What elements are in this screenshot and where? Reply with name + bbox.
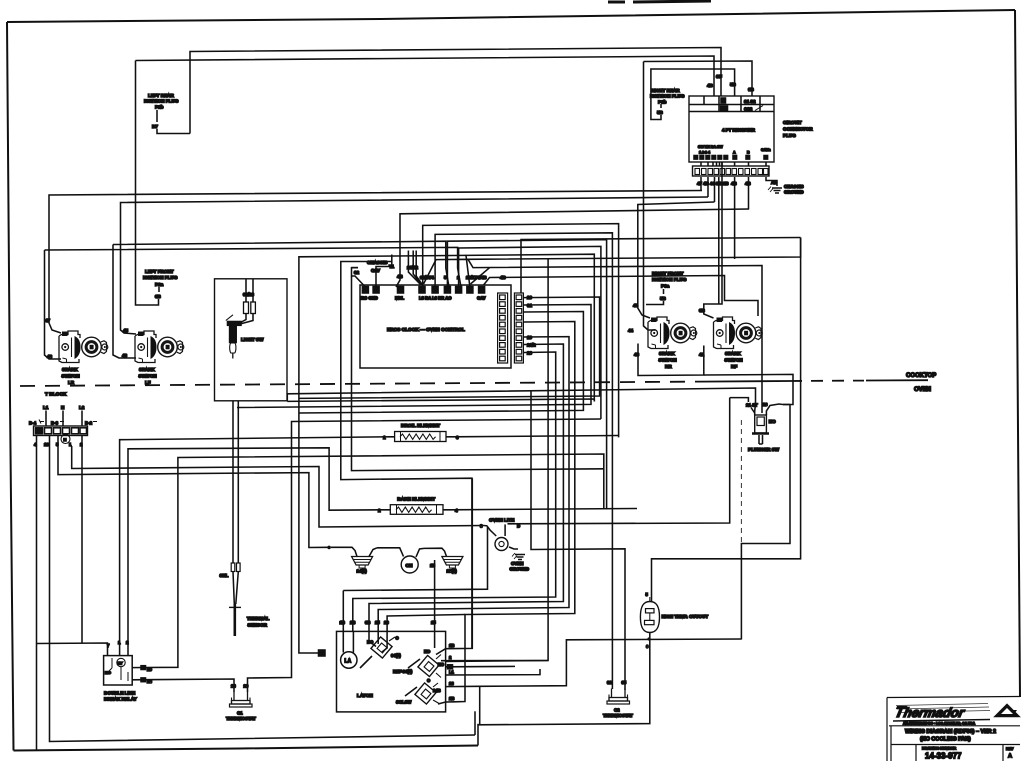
svg-text:BREAK RELAY: BREAK RELAY bbox=[104, 697, 137, 702]
svg-text:26: 26 bbox=[244, 684, 249, 689]
svg-text:BROIL ELEMENT: BROIL ELEMENT bbox=[401, 423, 440, 429]
svg-text:B7: B7 bbox=[152, 124, 158, 129]
wire: x340.8 rail from t2 region down to latch feed rail bbox=[341, 262, 472, 649]
svg-text:48: 48 bbox=[47, 354, 53, 359]
svg-text:S1 S2: S1 S2 bbox=[744, 99, 756, 104]
wire: latch right pin NO bbox=[441, 660, 548, 662]
svg-text:3B: 3B bbox=[699, 308, 706, 313]
svg-text:P2b: P2b bbox=[155, 105, 164, 110]
node junction dot bbox=[327, 546, 331, 550]
svg-text:20: 20 bbox=[147, 667, 152, 672]
wire: latch pin 1B riser bbox=[342, 591, 344, 632]
high temp cutout bbox=[640, 592, 708, 633]
svg-text:SOLSW: SOLSW bbox=[396, 700, 411, 705]
svg-text:4B: 4B bbox=[707, 83, 714, 88]
title block bbox=[887, 697, 1020, 761]
svg-text:SPARK: SPARK bbox=[62, 367, 78, 372]
svg-text:GROUND: GROUND bbox=[510, 567, 530, 572]
svg-text:P2a: P2a bbox=[155, 282, 164, 287]
oven lite lamp bbox=[480, 518, 529, 572]
latch relay DR bbox=[396, 683, 441, 705]
svg-text:34(2): 34(2) bbox=[391, 653, 401, 658]
svg-text:1 2 3 4: 1 2 3 4 bbox=[699, 151, 710, 155]
wire: register pins 166 strip drops bbox=[701, 177, 749, 304]
circuit connector plug label bbox=[783, 120, 813, 138]
broil element bbox=[383, 423, 459, 442]
svg-text:4B: 4B bbox=[731, 181, 737, 186]
svg-text:RIGHT REAR: RIGHT REAR bbox=[651, 88, 680, 93]
chassis ground bbox=[766, 177, 804, 195]
wire: latch right pin L1 bbox=[446, 669, 540, 675]
lamp socket right bbox=[442, 557, 463, 569]
svg-text:LEFT REAR: LEFT REAR bbox=[148, 93, 174, 98]
T BLOCK bbox=[29, 392, 97, 448]
wire bracket t7: ERCS terminal 7 riser to band bbox=[459, 246, 601, 419]
wire: cutout bottom drop to bottom bus bbox=[478, 633, 650, 725]
svg-text:PLUNGER SW: PLUNGER SW bbox=[748, 447, 780, 452]
svg-text:IGNITION PLUG: IGNITION PLUG bbox=[652, 277, 687, 282]
svg-text:44: 44 bbox=[628, 328, 634, 333]
wire: latch pin 387 riser bbox=[387, 615, 465, 632]
svg-text:B: B bbox=[747, 151, 750, 155]
wire: T-block L1 pin down to bottom bus bbox=[36, 436, 38, 750]
svg-text:CN: CN bbox=[406, 563, 413, 569]
wire: band line 401 lightbox bottom rail bbox=[287, 399, 594, 402]
wire: right socket 15 drop to latch bbox=[434, 560, 436, 631]
svg-text:SWITCH: SWITCH bbox=[659, 358, 678, 363]
svg-text:3B: 3B bbox=[365, 620, 370, 625]
wire: fold artifact dashed bbox=[740, 420, 742, 543]
wire D: register pin 4B to spark switch LF top bbox=[121, 197, 709, 334]
svg-text:AN AMERICAN CO • LOS ANGELES,: AN AMERICAN CO • LOS ANGELES, CA USA bbox=[903, 722, 976, 726]
wire C: register pin 47 to spark switch LR top bbox=[49, 191, 702, 334]
wire: inner bus riser to latch bottom corner bbox=[474, 711, 476, 735]
svg-text:5B: 5B bbox=[657, 110, 664, 115]
svg-text:D-4: D-4 bbox=[29, 421, 37, 426]
wire: latch right pin 1B riser bbox=[436, 478, 472, 654]
svg-text:PLUG: PLUG bbox=[783, 133, 796, 138]
svg-text:LA: LA bbox=[345, 659, 352, 665]
connector terminal strip bbox=[693, 162, 770, 176]
svg-text:N: N bbox=[64, 437, 67, 442]
wire: terminal 2 drop bbox=[376, 255, 392, 288]
wire B: x135 down-left branch to register pin 4B bbox=[136, 56, 715, 96]
svg-text:7: 7 bbox=[107, 643, 110, 648]
wire: x531 long vertical to C2 right leg bbox=[531, 391, 625, 690]
svg-text:THERMOSTAT: THERMOSTAT bbox=[603, 713, 633, 718]
wire: oven lite left feed from T-block N bbox=[72, 446, 484, 527]
spark switch LR bbox=[59, 331, 108, 363]
light switch box bbox=[215, 279, 288, 401]
svg-text:4B: 4B bbox=[397, 274, 403, 279]
wire bracket t6: ERCS terminal 6 riser to bake junction bbox=[447, 240, 606, 510]
wire: relay pin7 feed bbox=[37, 643, 108, 648]
svg-text:CAV: CAV bbox=[371, 268, 380, 273]
wire: T-block pin5 to socket rail bbox=[58, 436, 329, 548]
svg-text:WIRING DIAGRAM (RDF30) – VER: WIRING DIAGRAM (RDF30) – VER 2 bbox=[905, 729, 996, 735]
wire: broil left to DLB relay pin 1 bbox=[120, 437, 389, 649]
svg-text:1: 1 bbox=[118, 640, 121, 645]
svg-text:21 ST: 21 ST bbox=[746, 403, 758, 408]
svg-text:SNL: SNL bbox=[220, 573, 229, 578]
svg-text:IGNITION PLUG: IGNITION PLUG bbox=[144, 99, 179, 104]
svg-text:CONNECTOR: CONNECTOR bbox=[783, 127, 813, 132]
svg-text:DRAWING NUMBER: DRAWING NUMBER bbox=[922, 747, 957, 751]
wire: cooktop bus down to plunger right contact bbox=[704, 374, 793, 404]
svg-text:OVEN: OVEN bbox=[914, 387, 931, 393]
svg-text:SF: SF bbox=[716, 74, 722, 79]
svg-text:2: 2 bbox=[449, 655, 452, 660]
svg-text:6B: 6B bbox=[748, 87, 755, 92]
wire: RR bottom to RF bottom cooktop bus to plunger right bbox=[638, 344, 704, 376]
ERCS terminals bbox=[362, 287, 484, 294]
latch box bbox=[337, 631, 446, 712]
svg-text:SPARK: SPARK bbox=[725, 351, 741, 356]
wire F: hop bus terminal 4 to plunger rail bbox=[424, 259, 763, 413]
svg-text:C: C bbox=[427, 678, 430, 683]
svg-text:D-3: D-3 bbox=[51, 421, 59, 426]
svg-text:L1: L1 bbox=[43, 405, 49, 410]
svg-text:RR: RR bbox=[665, 364, 672, 369]
svg-text:31: 31 bbox=[527, 303, 532, 308]
wire: left front ignition plug drop bbox=[136, 61, 159, 306]
svg-text:REF 34(2): REF 34(2) bbox=[393, 669, 413, 674]
svg-text:LEFT FRONT: LEFT FRONT bbox=[145, 269, 174, 274]
wire: x643 feed to spark RR left bbox=[644, 62, 656, 331]
wire: spark rail to ERCS terminal 7 bbox=[45, 247, 462, 287]
svg-text:P3b: P3b bbox=[658, 100, 667, 105]
svg-text:14-33-977: 14-33-977 bbox=[925, 752, 962, 761]
wire: T-block L2 pin down bbox=[81, 436, 83, 644]
svg-text:RIGHT FRONT: RIGHT FRONT bbox=[652, 271, 684, 276]
thermal sensor bbox=[220, 563, 270, 636]
wire: step up to cutout bus bbox=[477, 724, 479, 746]
svg-text:CAV: CAV bbox=[477, 296, 486, 301]
svg-text:ERCS CLOCK — OVEN CONTROL: ERCS CLOCK — OVEN CONTROL bbox=[387, 327, 465, 333]
thermal sensor capillary wires bbox=[233, 401, 238, 563]
wire: relay right pin 20 riser rail bbox=[144, 454, 604, 668]
svg-text:10: 10 bbox=[527, 335, 532, 340]
svg-text:4 PT REGISTER: 4 PT REGISTER bbox=[722, 128, 756, 133]
svg-text:RO GND: RO GND bbox=[361, 296, 378, 301]
svg-text:NO: NO bbox=[438, 662, 445, 667]
svg-text:L2: L2 bbox=[79, 405, 85, 410]
wire: T-block pin2 down to inner bus bbox=[50, 436, 476, 742]
wire: xLA rail: terminal 8 top rail to latch LA circle bbox=[299, 255, 466, 653]
wire F2: y259 to long right vertical bbox=[468, 238, 801, 260]
svg-text:BAKE ELEMENT: BAKE ELEMENT bbox=[397, 497, 435, 503]
wire: connector pin 352 to latch pin 2B rail bbox=[353, 352, 556, 631]
wire: connector pin 337 to latch pin 378 bbox=[378, 337, 569, 632]
svg-text:A: A bbox=[733, 151, 736, 155]
wire: bus riser to latch 23 rail bbox=[479, 686, 481, 724]
svg-text:A: A bbox=[1008, 754, 1012, 760]
left front ignition plug P2a bbox=[143, 269, 178, 299]
wire: band line 392 light box to plunger bbox=[287, 388, 755, 415]
wire A: left rear plug to register pin SF bbox=[190, 48, 721, 134]
right rear ignition plug P3b bbox=[650, 69, 735, 120]
svg-text:32: 32 bbox=[607, 680, 612, 685]
wire: relay lower pin to C1 thermostat bbox=[145, 679, 234, 692]
svg-text:NO: NO bbox=[105, 670, 111, 675]
spark switch LF bbox=[135, 331, 184, 363]
svg-text:6: 6 bbox=[646, 644, 649, 649]
svg-text:20/1T4/4B: 20/1T4/4B bbox=[466, 275, 487, 280]
wire: terminal 4 fan feeders bbox=[408, 251, 422, 285]
Thermador logo bbox=[893, 704, 990, 726]
wire: band line 397.8 bbox=[299, 297, 600, 398]
svg-text:C2: C2 bbox=[614, 708, 620, 713]
svg-text:C1: C1 bbox=[237, 711, 243, 716]
node B terminal blob bbox=[319, 650, 326, 656]
svg-text:28: 28 bbox=[231, 684, 236, 689]
svg-text:MDL: MDL bbox=[395, 296, 405, 301]
svg-text:16(2): 16(2) bbox=[447, 569, 458, 574]
svg-text:N: N bbox=[61, 405, 65, 410]
svg-text:T1: T1 bbox=[389, 264, 395, 269]
C2 thermostat bbox=[603, 680, 633, 718]
svg-text:23: 23 bbox=[449, 681, 454, 686]
plunger switch bbox=[730, 398, 783, 452]
svg-text:24B: 24B bbox=[433, 688, 441, 693]
svg-text:SENSOR: SENSOR bbox=[248, 623, 268, 628]
wire: connector top to right vertical top bbox=[521, 238, 801, 294]
svg-text:45: 45 bbox=[633, 303, 639, 308]
lamp socket left bbox=[352, 557, 373, 569]
wire: terminal 8 diagonal bbox=[471, 268, 490, 284]
svg-text:LIGHT SW: LIGHT SW bbox=[241, 337, 264, 342]
svg-text:THERMOSTAT: THERMOSTAT bbox=[226, 716, 256, 721]
svg-text:BO: BO bbox=[367, 640, 374, 645]
svg-text:C: C bbox=[396, 636, 399, 641]
wire: x548 vertical to latch NO pin bbox=[446, 259, 548, 662]
svg-text:5: 5 bbox=[646, 592, 649, 597]
svg-text:L3 BA L3 BR AO: L3 BA L3 BR AO bbox=[419, 296, 452, 301]
4 PT register box bbox=[689, 96, 774, 162]
wire: bake right to rail bbox=[450, 509, 637, 510]
svg-text:OVEN: OVEN bbox=[511, 561, 523, 566]
wire: RF top-left pin from register pin 2B bbox=[704, 162, 722, 318]
logo triangle bbox=[995, 705, 1019, 717]
oven connector dual column bbox=[498, 293, 524, 363]
wire: latch right pin 23 to riser bbox=[446, 639, 742, 687]
double line break relay bbox=[104, 640, 153, 702]
svg-text:14(1): 14(1) bbox=[357, 569, 368, 574]
wire: bake left to DLB relay pin 2 bbox=[128, 448, 384, 649]
wire: branch to oven lite riser bbox=[343, 527, 487, 591]
svg-text:29: 29 bbox=[527, 295, 532, 300]
wire: x800 long vertical to cutout bbox=[652, 238, 801, 602]
left rear ignition plug P2b bbox=[144, 93, 190, 134]
svg-text:CS2: CS2 bbox=[744, 107, 753, 112]
svg-text:THERMAL: THERMAL bbox=[247, 616, 270, 621]
svg-text:IGNITION PLUG: IGNITION PLUG bbox=[143, 275, 178, 280]
bake element bbox=[378, 497, 458, 515]
svg-text:HIGH TEMP. CUTOUT: HIGH TEMP. CUTOUT bbox=[662, 614, 709, 619]
svg-text:45: 45 bbox=[123, 328, 129, 333]
svg-text:21/2: 21/2 bbox=[527, 343, 536, 348]
svg-text:LATCH: LATCH bbox=[357, 693, 373, 699]
svg-text:LR: LR bbox=[68, 380, 75, 385]
wire: latch right pin B blob bbox=[446, 665, 515, 667]
svg-text:P3a: P3a bbox=[661, 284, 670, 289]
wire: x351.5 rail down to x471.9 riser bbox=[352, 268, 359, 391]
svg-text:DOUBLE LINE: DOUBLE LINE bbox=[104, 691, 135, 696]
svg-text:SWITCH: SWITCH bbox=[139, 374, 158, 379]
svg-text:33/3T4: 33/3T4 bbox=[420, 275, 434, 280]
svg-text:CHASSIS: CHASSIS bbox=[784, 184, 804, 189]
svg-text:CIRCUIT: CIRCUIT bbox=[783, 120, 802, 125]
svg-text:(NO COOLING FAN): (NO COOLING FAN) bbox=[920, 737, 971, 743]
wire: socket rail segments bbox=[331, 547, 357, 556]
svg-text:NC: NC bbox=[424, 649, 430, 654]
wire: connector pin 344 to latch top right bbox=[369, 344, 563, 631]
wire: band line 406.8 bbox=[237, 305, 591, 408]
wire: plunger right to latch 23 riser bbox=[741, 405, 790, 640]
svg-text:1B: 1B bbox=[449, 643, 454, 648]
wire: x752 feed bbox=[644, 61, 753, 96]
latch relay RLY bbox=[408, 649, 445, 683]
svg-text:OVEN LITE: OVEN LITE bbox=[489, 518, 515, 524]
svg-text:COOKTOP: COOKTOP bbox=[906, 373, 936, 379]
svg-text:SPARK: SPARK bbox=[139, 367, 155, 372]
wire: CN to right socket bbox=[416, 548, 447, 557]
svg-text:16: 16 bbox=[763, 402, 768, 407]
top margin dashes bbox=[608, 1, 711, 2]
wire: latch pins into box bbox=[343, 631, 434, 652]
C1 thermostat bbox=[226, 684, 256, 722]
svg-text:2B: 2B bbox=[449, 696, 454, 701]
svg-text:GROUND: GROUND bbox=[784, 190, 804, 195]
wire: terminal 1 riser x351 bbox=[352, 268, 366, 287]
spark switch RF bbox=[714, 317, 763, 349]
svg-text:25: 25 bbox=[375, 620, 380, 625]
light switch LIGHT SW bbox=[226, 279, 264, 359]
svg-text:26: 26 bbox=[527, 351, 532, 356]
svg-text:5B: 5B bbox=[730, 82, 737, 87]
svg-text:43: 43 bbox=[122, 353, 128, 358]
svg-text:SW EN BA SW: SW EN BA SW bbox=[698, 145, 723, 149]
lamp CN bbox=[401, 556, 418, 573]
svg-text:47: 47 bbox=[45, 318, 51, 323]
spark switch RR bbox=[648, 317, 697, 349]
wire: band line 412.4 bbox=[299, 312, 584, 414]
svg-text:15: 15 bbox=[431, 620, 436, 625]
latch relay BO bbox=[360, 636, 401, 669]
svg-text:32: 32 bbox=[354, 270, 360, 275]
svg-text:41: 41 bbox=[699, 352, 705, 357]
svg-text:REV: REV bbox=[1006, 747, 1014, 751]
svg-text:35: 35 bbox=[622, 680, 627, 685]
svg-text:D: D bbox=[517, 524, 520, 529]
svg-text:LF: LF bbox=[145, 380, 151, 385]
svg-text:A1: A1 bbox=[771, 180, 777, 185]
svg-text:3B: 3B bbox=[155, 294, 162, 299]
svg-text:SWITCH: SWITCH bbox=[62, 374, 81, 379]
wire: dashed cooktop/oven divider bbox=[20, 382, 700, 386]
svg-text:4B: 4B bbox=[500, 275, 506, 280]
wire: band line 419 to C1 riser bbox=[248, 419, 601, 692]
wire E: register pin 44 to spark switch RR (45 wire) bbox=[638, 202, 715, 318]
svg-text:26: 26 bbox=[384, 620, 389, 625]
wire G: register pin 3B to ERCS terminal 3 bbox=[396, 209, 749, 287]
svg-text:SWITCH: SWITCH bbox=[725, 358, 744, 363]
svg-text:RF: RF bbox=[731, 364, 737, 369]
wire bracket t5: ERCS terminal 5 to C2 left leg bbox=[435, 233, 612, 689]
svg-text:T BLOCK: T BLOCK bbox=[45, 392, 67, 398]
svg-text:L1: L1 bbox=[449, 670, 455, 675]
wire: broil right to rail bbox=[452, 436, 619, 437]
right front ignition plug P3a bbox=[646, 271, 687, 305]
svg-text:D-2: D-2 bbox=[85, 421, 93, 426]
svg-text:IGNITION PLUG: IGNITION PLUG bbox=[650, 94, 685, 99]
svg-text:5B: 5B bbox=[660, 296, 667, 301]
svg-text:RY: RY bbox=[118, 662, 124, 666]
svg-text:CAVn: CAVn bbox=[761, 148, 771, 152]
wire bracket t8: terminal 8 riser to band bbox=[466, 254, 594, 401]
ERCS clock oven control box bbox=[360, 285, 511, 368]
svg-text:SPARK: SPARK bbox=[659, 351, 675, 356]
svg-text:2B: 2B bbox=[350, 620, 355, 625]
wire bracket t4: ERCS terminal 4 to C2-broil rail bbox=[423, 224, 619, 438]
svg-text:NC: NC bbox=[769, 419, 776, 424]
wire: latch bottom relay 2B pin bbox=[438, 702, 455, 704]
wire: terminal 9 to spark RF top right bbox=[484, 276, 758, 317]
svg-text:43: 43 bbox=[634, 352, 640, 357]
wire: connector pin 322 to latch 2B riser bbox=[455, 322, 575, 702]
latch LA coil bbox=[341, 652, 357, 668]
svg-text:13: 13 bbox=[44, 442, 49, 447]
svg-text:1B: 1B bbox=[340, 620, 345, 625]
wire: x730 riser oven lite rail to plunger left bbox=[508, 398, 730, 524]
wire: spark LF bottom rail to ERCS terminal 6 bbox=[113, 241, 449, 287]
